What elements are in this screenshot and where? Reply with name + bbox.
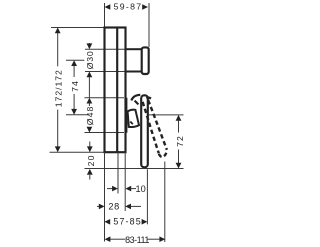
wire: knob centre line <box>66 59 84 61</box>
plate front face line <box>116 28 118 153</box>
dimension 172/172 left <box>54 28 64 153</box>
dimension 10 <box>107 184 146 194</box>
lever neck bottom stroke <box>135 101 139 105</box>
lever lower neck outline (dashed position root) <box>128 110 139 127</box>
knob cap <box>142 47 149 74</box>
dimension 28 <box>97 202 141 212</box>
wire: lever pivot centre line right <box>148 114 184 116</box>
lever dashed position: top cap dash <box>146 97 152 99</box>
wire: lever front extension line below <box>146 169 148 224</box>
dimension Ø48 <box>85 98 95 133</box>
svg-text:74: 74 <box>70 80 80 92</box>
dimension 20 <box>86 142 96 180</box>
lever dashed position: left edge <box>143 102 159 153</box>
wire: housing front extension line below <box>124 152 126 211</box>
svg-text:28: 28 <box>108 202 120 212</box>
wire: lever pivot centre line left <box>66 114 89 116</box>
svg-text:57-85: 57-85 <box>113 217 141 227</box>
wire: lever bottom long extension line <box>85 168 184 170</box>
wire: plate bottom extension line to left <box>50 151 105 153</box>
wire: knob stem top extension line <box>85 48 126 50</box>
lever root inner mark <box>130 122 133 125</box>
wire: wall extension line left top (59-87 left) <box>104 3 106 28</box>
wire: handle base top extension line <box>85 97 125 99</box>
lever arm solid (closed position) <box>141 95 148 167</box>
svg-text:59-87: 59-87 <box>114 2 143 12</box>
dimension 83-111 <box>105 235 166 245</box>
wire: extension line right of knob cap (59-87 right) <box>148 3 150 47</box>
svg-text:10: 10 <box>135 184 145 194</box>
svg-text:Ø48: Ø48 <box>85 106 95 126</box>
knob stem <box>126 49 142 71</box>
handle base front face <box>125 98 128 133</box>
dimension 74 <box>70 60 80 114</box>
dimension 57-85 <box>104 217 147 227</box>
wire: plate top extension line to left <box>51 27 105 29</box>
svg-text:Ø30: Ø30 <box>85 50 95 69</box>
dimension 72 right <box>175 115 185 169</box>
wire: handle base bottom extension line <box>85 132 125 134</box>
lever dashed position: tip cap <box>159 151 167 157</box>
lever dashed position: right edge <box>148 100 167 150</box>
wire: knob stem bottom extension line <box>85 71 126 73</box>
wire: plate front extension line below <box>117 152 119 193</box>
wire: dashed lever tip extension line below <box>164 162 166 243</box>
lever neck top arc <box>131 95 140 101</box>
wire: wall extension line below plate <box>104 152 106 241</box>
dimension Ø30 <box>85 43 95 98</box>
svg-text:72: 72 <box>175 135 185 147</box>
svg-text:83-111: 83-111 <box>125 235 149 245</box>
svg-text:20: 20 <box>86 154 96 166</box>
plate and housing outline <box>105 28 126 153</box>
svg-text:172/172: 172/172 <box>54 69 64 107</box>
dimension 59-87 top <box>105 2 149 12</box>
